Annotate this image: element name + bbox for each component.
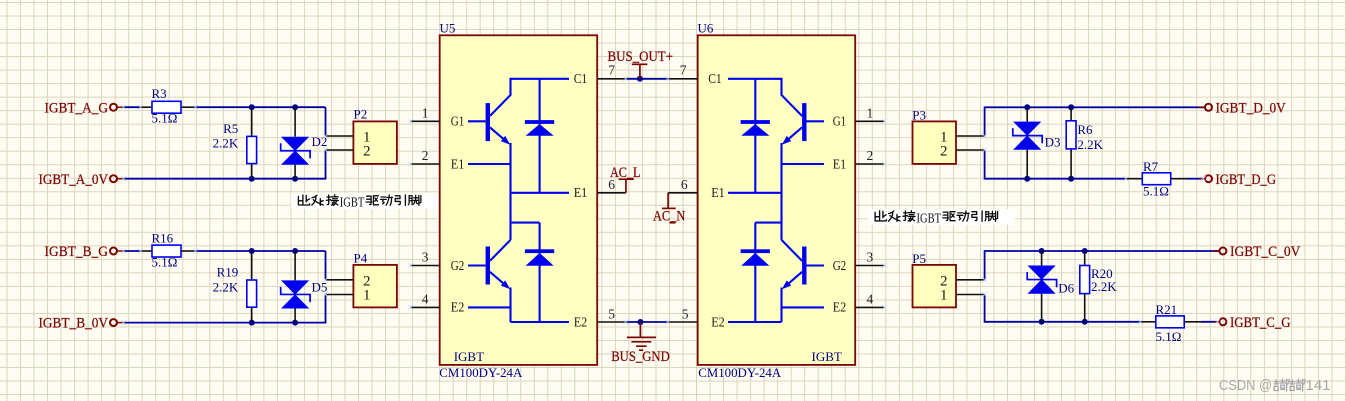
svg-text:CM100DY-24A: CM100DY-24A: [439, 365, 523, 380]
svg-text:E2: E2: [833, 301, 847, 316]
svg-text:IGBT_B_0V: IGBT_B_0V: [39, 316, 109, 332]
pin P2.1: [326, 135, 354, 137]
pin U6.6 E1: [668, 177, 725, 201]
pin U5.1 G1: [411, 105, 465, 129]
node D5 bottom: [292, 320, 298, 326]
svg-text:1: 1: [422, 105, 429, 120]
pin U5.6 E1: [574, 177, 626, 201]
pin U6.7 C1: [668, 63, 722, 88]
svg-text:G2: G2: [451, 259, 465, 274]
pin U6.2 E1: [833, 148, 885, 172]
svg-text:CSDN @: CSDN @: [1219, 377, 1272, 394]
wire R21 to port: [1201, 321, 1217, 323]
svg-text:G2: G2: [833, 259, 847, 274]
resistor R21: [1140, 302, 1201, 344]
pin P5.1: [956, 294, 985, 296]
svg-text:E1: E1: [833, 157, 847, 172]
svg-text:2: 2: [363, 144, 371, 160]
svg-text:3: 3: [422, 250, 429, 265]
ground BUS_GND: [611, 322, 670, 365]
node R5 bottom: [249, 176, 255, 182]
node D5 top: [292, 248, 298, 254]
connector P5: [912, 251, 956, 307]
svg-text:E2: E2: [451, 301, 465, 316]
connector P4: [353, 251, 397, 308]
port IGBT_D_G: [1200, 172, 1277, 188]
svg-text:5.1Ω: 5.1Ω: [1156, 329, 1182, 344]
svg-text:IGBT_B_G: IGBT_B_G: [45, 244, 109, 260]
wire R7 to port: [1187, 178, 1203, 180]
node R6 top: [1068, 104, 1074, 110]
pin U6.5 E2: [668, 306, 725, 330]
diode D3 TVS: [1013, 107, 1061, 178]
svg-text:2: 2: [867, 148, 874, 163]
port IGBT_B_0V: [39, 316, 124, 332]
svg-text:2.2K: 2.2K: [213, 136, 239, 151]
port IGBT_C_G: [1214, 315, 1291, 331]
svg-text:R21: R21: [1156, 302, 1178, 317]
svg-text:IGBT_C_G: IGBT_C_G: [1230, 315, 1291, 331]
svg-text:BUS_GND: BUS_GND: [611, 349, 670, 365]
svg-text:R7: R7: [1143, 159, 1159, 174]
wire BUS_OUT+ row: [626, 78, 668, 80]
op-amp U5 IGBT module box: [439, 21, 597, 380]
resistor R5: [213, 107, 257, 179]
svg-text:2.2K: 2.2K: [1091, 279, 1117, 294]
pin U5.3 G2: [411, 250, 465, 274]
wire P3 pin1 up to top rail: [985, 107, 1205, 136]
svg-text:2.2K: 2.2K: [1077, 137, 1103, 152]
svg-text:IGBT_A_0V: IGBT_A_0V: [39, 172, 109, 188]
svg-text:CM100DY-24A: CM100DY-24A: [698, 365, 782, 380]
node R20 top: [1082, 248, 1088, 254]
diode D6 TVS: [1027, 251, 1074, 322]
svg-text:2: 2: [940, 144, 948, 160]
pin P4.2: [326, 279, 354, 281]
resistor R6: [1066, 107, 1103, 178]
pin P3.1: [956, 135, 985, 137]
transistor Q-lower of U5: [468, 223, 569, 322]
wire BUS_GND row: [626, 321, 668, 323]
svg-text:D6: D6: [1058, 280, 1074, 295]
svg-text:R16: R16: [152, 230, 174, 245]
svg-text:U6: U6: [698, 21, 714, 36]
node D3 bottom: [1024, 176, 1030, 182]
resistor R3: [152, 86, 182, 125]
svg-text:E2: E2: [711, 315, 725, 330]
node D3 top: [1024, 104, 1030, 110]
svg-text:AC_N: AC_N: [653, 209, 685, 225]
resistor R16: [152, 230, 182, 269]
wire P3 pin2 down to bottom rail: [985, 150, 1126, 179]
svg-text:IGBT_A_G: IGBT_A_G: [45, 100, 109, 116]
svg-text:P2: P2: [354, 107, 368, 122]
node D2 bottom: [292, 176, 298, 182]
svg-text:2.2K: 2.2K: [213, 279, 239, 294]
resistor R20: [1080, 251, 1117, 322]
svg-text:5.1Ω: 5.1Ω: [1143, 184, 1169, 199]
node R5 top: [249, 104, 255, 110]
svg-text:P4: P4: [354, 251, 368, 266]
svg-text:IGBT: IGBT: [454, 349, 484, 364]
svg-text:IGBT_D_G: IGBT_D_G: [1216, 172, 1277, 188]
svg-text:1: 1: [940, 287, 948, 303]
pin U6.1 G1: [833, 105, 885, 129]
diode FWD-lower of U5: [525, 223, 554, 322]
resistor R19: [213, 251, 257, 323]
node BUS_GND: [637, 319, 643, 325]
svg-text:U5: U5: [440, 21, 456, 36]
node D6 top: [1039, 248, 1045, 254]
svg-text:5: 5: [608, 306, 615, 321]
transistor Q-upper of U6: [728, 79, 824, 223]
wire P5 pin1 down to bottom rail: [985, 295, 1141, 322]
node R19 top: [249, 248, 255, 254]
pin U5.4 E2: [411, 292, 465, 316]
connector P2: [353, 107, 397, 164]
svg-text:R6: R6: [1077, 122, 1093, 137]
port IGBT_C_0V: [1213, 244, 1301, 260]
resistor R7: [1126, 159, 1187, 199]
svg-text:6: 6: [681, 177, 688, 192]
svg-text:IGBT: IGBT: [812, 349, 842, 364]
wire P4 pin1 down to bottom rail: [124, 295, 326, 323]
svg-text:P3: P3: [912, 107, 926, 122]
node A annotation left: [291, 193, 438, 210]
pin P5.2: [956, 279, 985, 281]
svg-text:G1: G1: [451, 115, 465, 130]
svg-text:C1: C1: [574, 72, 588, 87]
pin U5.5 E2: [574, 306, 626, 330]
wire R16 to corner: [181, 250, 195, 252]
svg-text:5.1Ω: 5.1Ω: [152, 254, 178, 269]
svg-text:R5: R5: [223, 121, 238, 136]
pin U5.2 E1: [411, 148, 465, 172]
diode FWD-lower of U6: [741, 223, 770, 322]
svg-text:E1: E1: [711, 186, 725, 201]
transistor Q-upper of U5: [468, 79, 569, 223]
svg-text:IGBT_D_0V: IGBT_D_0V: [1216, 100, 1287, 116]
svg-text:C1: C1: [708, 72, 722, 87]
wire corner down to P2 pin1: [325, 107, 327, 136]
diode D2 TVS: [281, 107, 328, 179]
node B annotation right: [868, 209, 1015, 226]
svg-text:2: 2: [422, 148, 429, 163]
wire R3 to corner: [181, 106, 195, 108]
transistor Q-lower of U6: [728, 223, 824, 322]
pin U5.7 C1: [574, 63, 626, 88]
pin P4.1: [326, 294, 354, 296]
node D2 top: [292, 104, 298, 110]
power port BUS_OUT+: [608, 49, 674, 79]
port IGBT_D_0V: [1199, 100, 1287, 116]
connector P3: [912, 107, 956, 164]
svg-text:E1: E1: [451, 157, 465, 172]
port IGBT_A_0V: [39, 172, 124, 188]
svg-text:R3: R3: [152, 86, 167, 101]
svg-text:G1: G1: [833, 115, 847, 130]
svg-text:R19: R19: [217, 265, 239, 280]
pin P3.2: [956, 149, 985, 151]
svg-text:P5: P5: [912, 251, 926, 266]
node D6 bottom: [1039, 319, 1045, 325]
svg-text:7: 7: [680, 63, 687, 78]
wire corner down to P4 pin2: [325, 251, 327, 280]
svg-text:E1: E1: [574, 186, 588, 201]
svg-text:1: 1: [363, 287, 371, 303]
op-amp U6 IGBT module box: [698, 21, 856, 380]
svg-text:4: 4: [422, 292, 429, 307]
pin P2.2: [326, 149, 354, 151]
node R19 bottom: [249, 320, 255, 326]
svg-text:1: 1: [867, 105, 874, 120]
svg-text:D5: D5: [312, 280, 328, 295]
pin U6.3 G2: [833, 250, 885, 274]
svg-text:3: 3: [867, 250, 874, 265]
diode FWD-upper of U5: [525, 79, 554, 193]
svg-text:IGBT_C_0V: IGBT_C_0V: [1230, 244, 1301, 260]
wire P2 pin2 down to bottom rail: [124, 150, 326, 179]
svg-text:D3: D3: [1045, 135, 1061, 150]
svg-text:4: 4: [867, 292, 874, 307]
wire P5 pin2 up to top rail: [985, 251, 1219, 280]
wire IGBT_B_G to R16: [124, 250, 141, 252]
diode D5 TVS: [281, 251, 328, 323]
port IGBT_B_G: [45, 244, 124, 260]
power port AC_L: [610, 165, 641, 193]
node R6 bottom: [1068, 176, 1074, 182]
power port AC_N: [653, 193, 685, 225]
diode FWD-upper of U6: [741, 79, 770, 193]
wire no-ERC marks: [121, 76, 1220, 325]
wire IGBT_A_G to R3: [124, 106, 141, 108]
svg-text:141: 141: [1306, 377, 1331, 394]
port IGBT_A_G: [45, 100, 124, 116]
svg-text:E2: E2: [574, 315, 588, 330]
node R20 bottom: [1082, 319, 1088, 325]
svg-text:5: 5: [682, 306, 689, 321]
svg-text:BUS_OUT+: BUS_OUT+: [608, 49, 674, 65]
pin U6.4 E2: [833, 292, 885, 316]
node BUS_OUT+: [637, 76, 643, 82]
svg-text:5.1Ω: 5.1Ω: [152, 110, 178, 125]
